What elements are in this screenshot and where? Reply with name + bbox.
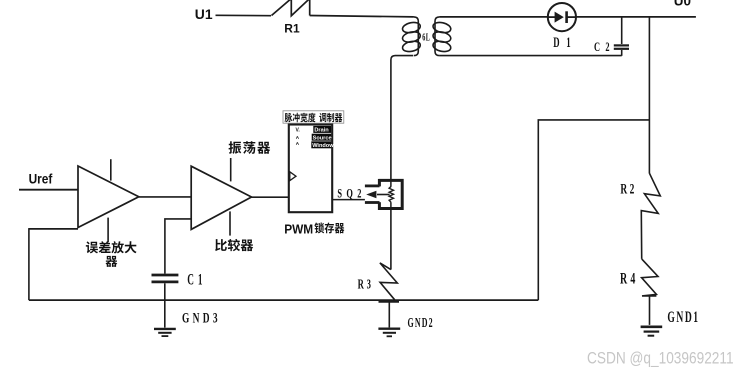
pin label Source	[312, 134, 332, 141]
wire MOSFET source to R3	[390, 209, 392, 270]
diode D1	[548, 3, 576, 31]
svg-text:CSDN @q_1039692211: CSDN @q_1039692211	[587, 349, 734, 367]
resistor R2	[641, 173, 660, 259]
svg-text:GND1: GND1	[667, 308, 698, 326]
label 比较器	[215, 239, 253, 251]
op-amp comparator	[191, 166, 251, 229]
label 误差放大器	[86, 241, 137, 267]
inductor: transformer secondary winding	[435, 17, 439, 56]
wire inverting input	[29, 228, 78, 230]
wire comparator output to PWM latch	[252, 196, 289, 198]
PWM latch block U4	[289, 125, 332, 213]
wire secondary top to D1	[439, 16, 547, 18]
svg-text:GND2: GND2	[408, 316, 433, 331]
wire error amp output to comparator	[139, 196, 191, 198]
wire C1 node to comparator input	[165, 219, 191, 274]
ground GND3	[154, 328, 176, 330]
pin label Window	[311, 141, 331, 148]
ground GND2	[378, 328, 400, 330]
clock input marker	[290, 172, 296, 181]
wire junction stub to C2	[621, 17, 623, 44]
ground GND1	[641, 325, 663, 328]
svg-text:V.: V.	[296, 128, 301, 134]
wire junction to GND2	[388, 302, 390, 327]
svg-text:U1: U1	[195, 6, 213, 22]
wire R4 to GND1	[649, 296, 651, 325]
resistor R3	[380, 263, 397, 300]
junction R3 bottom rail	[379, 300, 400, 303]
resistor R4	[642, 259, 658, 296]
label 脉冲宽度调制器 (title box)	[283, 111, 344, 123]
op-amp error amplifier	[78, 166, 139, 228]
wire C2 bottom to secondary bottom	[439, 55, 621, 57]
svg-text:Uref: Uref	[29, 171, 53, 186]
label 振荡器 (oscillator)	[229, 141, 271, 154]
wire R1 to transformer primary	[310, 16, 414, 17]
svg-text:SQ2: SQ2	[337, 188, 361, 201]
inductor: transformer primary winding	[414, 17, 418, 56]
svg-text:R1: R1	[284, 22, 300, 36]
wire Uref input	[19, 189, 78, 191]
svg-text:6L: 6L	[422, 32, 430, 43]
svg-text:Source: Source	[313, 135, 332, 141]
wire primary bottom to MOSFET drain	[391, 56, 413, 181]
transistor Q2 MOSFET	[378, 180, 402, 208]
svg-text:Window: Window	[312, 143, 334, 149]
svg-text:U0: U0	[674, 0, 691, 9]
wire U1 to R1	[216, 14, 272, 16]
wire feedback left vertical	[28, 228, 30, 300]
wire U0 junction down to R2	[648, 17, 650, 174]
wire PWM latch gate output	[332, 199, 365, 201]
wire C1 bottom through rail to GND3	[164, 283, 166, 327]
wire feedback tap from U0 branch	[538, 120, 649, 300]
pin label Drain	[313, 126, 331, 133]
svg-text:Drain: Drain	[314, 128, 329, 134]
svg-text:PWM: PWM	[284, 221, 313, 236]
capacitor C1	[152, 274, 179, 277]
wire D1 to output node U0	[576, 16, 696, 18]
capacitor C2	[614, 44, 629, 46]
resistor R1	[272, 0, 310, 16]
wire feedback bottom rail	[29, 299, 538, 301]
